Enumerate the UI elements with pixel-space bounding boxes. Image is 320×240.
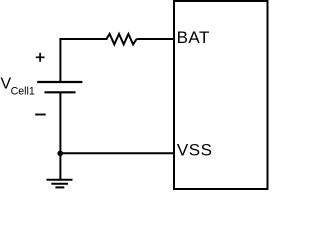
svg-text:BAT: BAT	[177, 28, 210, 47]
wire resistor to BAT pin	[137, 38, 174, 40]
svg-text:VSS: VSS	[177, 140, 213, 159]
IC U1 (gas gauge device box)	[174, 1, 268, 189]
wire battery positive to resistor	[60, 39, 106, 82]
plus polarity mark	[36, 53, 45, 62]
minus polarity mark	[35, 114, 46, 116]
svg-text:Cell1: Cell1	[11, 86, 35, 98]
wire battery negative down to ground	[59, 92, 61, 179]
resistor R1	[106, 34, 136, 45]
battery VCell1 negative plate	[45, 91, 76, 93]
ground symbol	[47, 180, 73, 188]
junction dot node VSS	[57, 151, 63, 157]
wire junction to VSS pin	[60, 152, 174, 154]
battery VCell1 positive plate	[37, 81, 82, 83]
